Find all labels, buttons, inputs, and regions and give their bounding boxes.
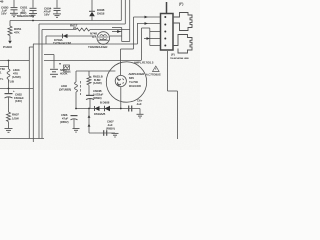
svg-text:(1/2W): (1/2W)	[12, 75, 21, 79]
label C651 value	[17, 6, 34, 18]
label C650 value	[1, 6, 9, 16]
resistor R607	[7, 112, 11, 128]
capacitor C651	[30, 0, 37, 13]
svg-text:D618: D618	[97, 12, 105, 16]
svg-text:(R65V): (R65V)	[60, 120, 69, 124]
svg-text:(16V): (16V)	[15, 99, 22, 103]
svg-text:22: 22	[73, 26, 76, 30]
connector J1 pins	[164, 16, 166, 47]
label S601	[60, 68, 68, 75]
big box left edge x39	[38, 24, 40, 139]
wall jack plug 1	[173, 13, 192, 31]
wire diode row y108	[76, 108, 140, 110]
diode D606	[105, 106, 111, 112]
ground	[112, 133, 119, 137]
wire bus y88	[0, 88, 33, 90]
wire bottom bus y138	[0, 138, 44, 140]
diode D608	[89, 0, 95, 21]
ringer transformer T602	[97, 32, 110, 45]
inductor L602	[75, 81, 81, 109]
svg-text:TRANSDUCER: TRANSDUCER	[88, 45, 107, 49]
telephone network boundary wall	[168, 51, 178, 139]
label C604 value	[43, 6, 52, 16]
resistor R615	[87, 76, 91, 95]
svg-text:(D/TUBER): (D/TUBER)	[59, 89, 71, 92]
transducer circle MIC	[115, 75, 126, 86]
label corner fragment	[0, 0, 4, 4]
label R651	[14, 27, 22, 35]
svg-text:47K: 47K	[14, 31, 20, 35]
wire cap to ground	[139, 109, 141, 115]
label D703 TV/TELECOM	[53, 38, 72, 45]
warning triangle	[153, 66, 160, 72]
svg-text:.1uF: .1uF	[136, 102, 142, 106]
svg-text:A.C7TOBUS: A.C7TOBUS	[146, 72, 161, 76]
svg-text:D610A/B: D610A/B	[94, 112, 105, 116]
capacitor C608	[129, 106, 132, 112]
wire step to amplifier	[121, 17, 134, 76]
label C652	[13, 89, 24, 103]
capacitor C650	[11, 0, 18, 13]
inner box left edge x42	[41, 30, 43, 139]
wire stubs with plug arrows	[110, 28, 130, 42]
ground	[73, 129, 80, 133]
label TL	[8, 80, 14, 84]
wire bus A	[10, 0, 121, 21]
label amplifier output	[134, 61, 154, 65]
wire bus B (box top edge)	[39, 0, 125, 24]
label C606	[60, 113, 69, 124]
label R607	[12, 112, 19, 120]
label R615	[93, 75, 103, 85]
svg-text:L602: L602	[61, 84, 67, 88]
label caution	[146, 72, 161, 76]
resistor R651	[8, 21, 12, 41]
connector arrow P1400	[8, 41, 12, 44]
svg-text:TL: TL	[0, 77, 4, 81]
svg-text:(R634): (R634)	[93, 96, 102, 100]
capacitor C652 polarized	[5, 89, 13, 113]
capacitor C604	[54, 0, 61, 14]
svg-text:B D608: B D608	[100, 101, 110, 105]
label R617	[70, 23, 78, 30]
label R748	[90, 32, 97, 39]
node junction x9 y60	[8, 60, 10, 62]
wire transducer to diode row	[120, 87, 122, 109]
label C614	[93, 89, 104, 100]
svg-text:BREAKDOWN: BREAKDOWN	[17, 14, 34, 18]
svg-text:47uF: 47uF	[62, 116, 68, 120]
svg-text:4.7: 4.7	[92, 35, 96, 39]
label (F) wall jack	[170, 53, 189, 61]
svg-text:1/2W: 1/2W	[12, 116, 19, 120]
wire diode line y36	[46, 36, 96, 44]
label D605 D606	[94, 101, 110, 116]
wire vertical x129	[129, 0, 131, 42]
capacitor C607	[104, 130, 107, 136]
node junction on bus A	[32, 20, 34, 22]
label T601 left	[0, 67, 5, 81]
wire y38 into connector	[144, 28, 160, 46]
ground	[10, 13, 18, 16]
svg-text:(F): (F)	[171, 53, 175, 57]
svg-text:TELEPHONE LINE: TELEPHONE LINE	[170, 58, 189, 60]
wire bus y60	[0, 60, 142, 62]
label (F) top right	[179, 2, 183, 6]
diode D703	[63, 34, 68, 38]
label L602	[59, 84, 71, 92]
svg-text:R11/CD8: R11/CD8	[129, 84, 141, 88]
svg-text:AMPL.R17/D1.5: AMPL.R17/D1.5	[134, 61, 154, 65]
diode D605	[95, 106, 100, 111]
label C608	[136, 99, 143, 106]
wire y28 link	[142, 28, 150, 60]
label P1400	[3, 45, 12, 49]
svg-text:16V: 16V	[1, 11, 7, 15]
ground	[5, 129, 13, 133]
label L604	[12, 68, 21, 79]
wire inner box top y29.5 with resistor R617	[42, 28, 130, 31]
ground	[137, 114, 144, 118]
wire y133	[89, 132, 115, 134]
wire stub y66.5	[0, 66, 9, 68]
label amplifier	[129, 72, 146, 88]
svg-text:16V: 16V	[44, 12, 50, 16]
svg-text:49: 49	[0, 0, 4, 4]
label varistor	[59, 63, 71, 74]
ground	[53, 14, 61, 17]
svg-text:RV601: RV601	[63, 71, 71, 74]
capacitor C606	[71, 116, 78, 129]
amplifier circle	[106, 62, 146, 102]
label D608	[97, 8, 105, 16]
svg-text:(R65V): (R65V)	[106, 126, 115, 130]
node junctions on diode row	[75, 108, 122, 110]
svg-text:(1/2W): (1/2W)	[93, 81, 102, 85]
inductor L604	[7, 61, 10, 89]
wire y23 to connector pin 2	[138, 22, 161, 44]
svg-text:P1400: P1400	[3, 45, 12, 49]
svg-text:C606: C606	[61, 113, 68, 117]
svg-text:TL/B: TL/B	[8, 80, 14, 84]
wire to hook switch	[44, 55, 54, 69]
svg-text:m: m	[59, 63, 61, 66]
ground	[29, 14, 37, 17]
wire bus C y44	[33, 43, 138, 45]
wire y17 to connector pin 1	[134, 16, 161, 19]
wire chain top y71	[76, 71, 115, 82]
zener marks on x90	[88, 109, 91, 134]
svg-text:TV/TELECOM: TV/TELECOM	[53, 41, 72, 45]
wall jack plug 2	[173, 35, 192, 54]
capacitor C614 polarized	[86, 95, 94, 108]
hook switch stack S601	[50, 69, 58, 77]
svg-text:(F): (F)	[179, 2, 183, 6]
label transducer	[88, 45, 107, 49]
left vertical pair x29 x33	[29, 44, 33, 142]
label C607	[106, 120, 115, 131]
node junction x9 y88	[8, 88, 10, 90]
connector block J1	[161, 2, 174, 50]
symbol varistor box	[64, 65, 70, 70]
